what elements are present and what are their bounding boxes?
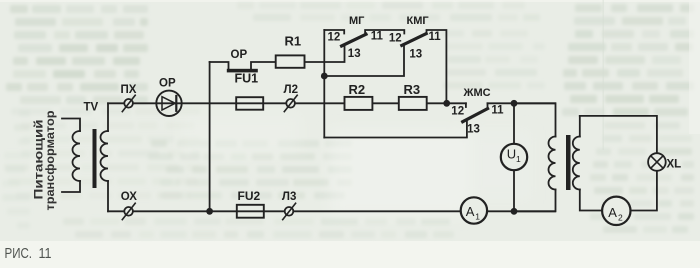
- wire: lamp loop top: [580, 116, 657, 153]
- svg-text:1: 1: [516, 154, 521, 164]
- lamp XL: [648, 153, 666, 171]
- wire: lamp loop bottom: [631, 171, 657, 211]
- wire: vertical x=324.3 (MG-12 to KMG-13/ZhMS-13): [323, 30, 325, 138]
- junction dot: [321, 73, 328, 80]
- svg-text:12: 12: [328, 32, 341, 44]
- output transformer core: [566, 135, 571, 190]
- svg-text:XL: XL: [667, 159, 682, 171]
- fuse FU2: [237, 205, 264, 218]
- wire: middle rail right section: [488, 102, 556, 104]
- wire: KMG-13 return rail: [324, 46, 404, 77]
- ammeter A1: [461, 197, 487, 223]
- svg-text:1: 1: [475, 212, 480, 222]
- svg-text:FU1: FU1: [235, 72, 259, 86]
- svg-text:U: U: [507, 146, 516, 161]
- svg-text:A: A: [466, 204, 475, 219]
- svg-text:КМГ: КМГ: [407, 15, 430, 27]
- output transformer secondary: [579, 116, 581, 137]
- junction dot: [511, 100, 518, 107]
- light scan unevenness patches: [180, 115, 530, 215]
- svg-text:ОР: ОР: [231, 49, 248, 61]
- ammeter A2: [602, 197, 630, 225]
- wire: ZhMS-13 rail: [324, 121, 467, 138]
- svg-text:13: 13: [348, 48, 361, 60]
- terminal L2: [286, 99, 295, 108]
- svg-text:R2: R2: [349, 82, 366, 97]
- svg-text:2: 2: [618, 213, 623, 223]
- svg-text:Л3: Л3: [282, 191, 296, 203]
- resistor R2: [345, 97, 373, 110]
- svg-text:13: 13: [467, 124, 480, 136]
- wire: middle rail left section: [108, 102, 466, 104]
- svg-text:ОР: ОР: [159, 78, 176, 90]
- svg-text:R3: R3: [404, 82, 421, 97]
- svg-text:ОХ: ОХ: [121, 191, 138, 203]
- transformer TV primary leads and winding: [62, 119, 80, 132]
- resistor R3: [399, 97, 427, 110]
- wire: vertical from OP contact branch to bottom rail: [209, 62, 211, 211]
- switch ZhMS blade: [463, 109, 488, 122]
- transformer TV core: [93, 129, 97, 188]
- svg-text:ПХ: ПХ: [121, 84, 137, 96]
- svg-text:11: 11: [371, 31, 384, 43]
- terminal L3: [285, 207, 294, 216]
- svg-text:МГ: МГ: [349, 15, 365, 27]
- svg-text:12: 12: [389, 33, 402, 45]
- diode OP (rectifier): [156, 91, 181, 116]
- svg-text:11: 11: [491, 105, 504, 117]
- wire: R1 output to MG pivot: [305, 46, 345, 63]
- wire: bottom rail: [108, 210, 555, 212]
- terminal PH: [124, 99, 133, 108]
- svg-text:ЖМС: ЖМС: [463, 87, 491, 99]
- svg-text:A: A: [608, 205, 617, 220]
- svg-text:трансформатор: трансформатор: [43, 110, 57, 210]
- svg-text:FU2: FU2: [238, 189, 261, 203]
- switch KMG blade: [402, 34, 426, 46]
- svg-text:11: 11: [39, 246, 52, 262]
- junction dot: [443, 100, 450, 107]
- junction dot: [511, 208, 518, 215]
- fuse FU1: [236, 97, 263, 110]
- svg-text:13: 13: [409, 49, 422, 61]
- svg-text:11: 11: [429, 31, 442, 43]
- voltmeter U1: [501, 144, 527, 170]
- scan artifact faint vertical line: [603, 0, 604, 150]
- junction dot: [206, 208, 213, 215]
- switch MG blade: [342, 34, 366, 46]
- wire: top contact rail segments: [324, 30, 344, 34]
- svg-text:12: 12: [451, 106, 464, 118]
- svg-text:R1: R1: [285, 34, 302, 49]
- contact OP branch leads: [210, 62, 229, 69]
- svg-text:TV: TV: [84, 102, 99, 114]
- wire: output transformer primary loop corners: [514, 103, 556, 136]
- svg-text:РИС.: РИС.: [5, 246, 33, 262]
- wire: U1 branch vertical: [513, 103, 515, 211]
- resistor R1: [276, 55, 305, 67]
- transformer TV secondary vertical with winding: [107, 103, 109, 131]
- contact OP bar: [227, 69, 258, 73]
- switch ZhMS stubs: [465, 103, 467, 107]
- terminal OH: [124, 207, 133, 216]
- svg-text:Л2: Л2: [284, 84, 298, 96]
